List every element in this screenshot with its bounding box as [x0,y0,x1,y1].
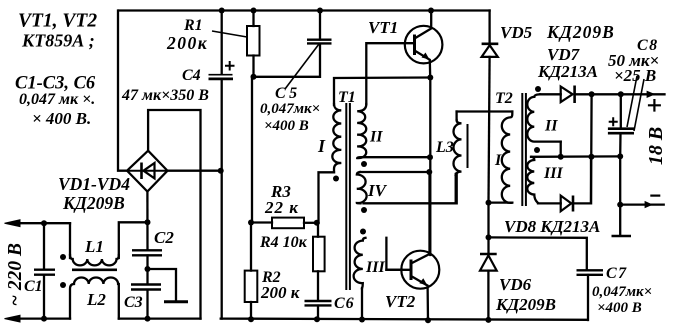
resistor R2 [245,223,258,320]
node C2 C3 midpoint [145,266,151,272]
inductor L1 [70,223,119,265]
wire T1 winding IV top [360,171,429,173]
wire L1 to bridge [119,222,148,258]
diode VD6 [480,203,497,321]
svg-text:C5: C5 [275,85,301,102]
T1 winding IV [357,172,367,203]
svg-text:C3: C3 [124,294,143,311]
transistor VT2 [386,172,439,321]
svg-text:VD6: VD6 [499,275,532,294]
T1 core line right [349,103,351,290]
node VD6 bottom [485,317,491,323]
T2 winding III [527,157,537,203]
wire VD6 node to C7 [489,237,587,269]
node winding II bottom [427,154,433,160]
capacitor C7 [577,270,604,320]
node R1 bottom [251,74,257,80]
node VT1 emitter [427,75,433,81]
resistor R4 [313,223,325,301]
input terminal top [5,220,71,227]
diode VD5 [482,11,499,203]
svg-text:VT2: VT2 [385,292,416,311]
svg-text:0,047мк×: 0,047мк× [592,284,652,300]
diode VD7 [540,86,665,104]
svg-text:C7: C7 [606,265,628,282]
node winding IV top [426,169,432,175]
svg-text:II: II [369,129,383,146]
svg-text:47 мк×350 В: 47 мк×350 В [121,87,209,104]
wire bridge top vertex to AC line [148,110,200,319]
wire VD7 cathode riser [590,94,593,203]
svg-text:VD1-VD4: VD1-VD4 [58,174,130,194]
svg-text:~ 220 В: ~ 220 В [5,243,26,306]
phasing dot T2 winding III [534,147,540,153]
T1 winding III [354,238,366,289]
T1 winding II [357,104,366,158]
wire T1 winding IV bottom to L3 [364,173,457,203]
wire T1 winding III top to VT2 base [386,238,402,270]
node R2 bottom [248,316,254,322]
inductor L3 [454,112,468,204]
svg-text:200 к: 200 к [260,283,300,302]
svg-text:VD8 КД213А: VD8 КД213А [504,217,600,236]
capacitor C8 electrolytic [608,76,644,156]
svg-text:VD5: VD5 [500,23,533,42]
capacitor C5 [285,11,332,90]
phasing dot T1 winding I [333,176,339,182]
svg-text:×400 В: ×400 В [597,300,642,316]
node center tap at riser [588,154,594,160]
svg-text:I: I [494,152,502,169]
wire bridge bottom riser [146,192,148,251]
node C1 bottom [41,316,47,322]
node DC minus at C4 line [218,168,224,174]
svg-text:КД213А: КД213А [537,62,598,81]
wire VT1 emitter to T1 winding I top [334,78,430,106]
svg-text:22 к: 22 к [264,198,299,217]
resistor R1 [212,11,260,77]
T2 winding I [502,112,513,203]
svg-text:R1: R1 [183,17,203,34]
svg-text:III: III [365,259,385,276]
wire VT1 emitter down to VT2 collector [429,78,431,256]
output terminal minus arrow [620,196,664,209]
T2 core line right [525,93,527,206]
svg-text:T1: T1 [338,89,356,106]
inductor L2 [70,277,119,318]
svg-text:VT1: VT1 [368,18,398,37]
node junction top rail at C5 [317,8,323,14]
phasing dot T1 winding IV [361,207,367,213]
capacitor C6 [305,301,332,320]
svg-text:C1: C1 [24,278,43,295]
phasing dot L1 [60,254,66,260]
node VD6 to C7 wire [486,234,492,240]
svg-text:I: I [317,136,326,156]
wire T1 winding II bottom to center node [362,156,430,158]
T2 winding II [527,94,560,141]
svg-text:L2: L2 [86,290,106,309]
svg-text:0,047мк×: 0,047мк× [260,101,320,117]
phasing dot T1 winding II [361,161,367,167]
wire bridge right vertex to DC minus [168,170,221,172]
input terminal bottom [5,315,71,322]
svg-text:18 В: 18 В [645,127,667,165]
node bridge bottom to L1 [145,219,151,225]
wire DC minus rail [221,319,588,320]
capacitor C2 [132,250,162,284]
T1 core line left [345,103,347,290]
svg-text:C2: C2 [154,228,174,247]
transformer T2 [489,93,561,206]
svg-text:R4 10к: R4 10к [259,234,308,251]
svg-text:200к: 200к [166,33,208,53]
svg-text:× 400 В.: × 400 В. [32,109,91,128]
capacitor C1 [34,223,55,318]
wire L3 top to T2 [457,110,513,112]
resistor R3 [251,218,317,229]
output terminal positive arrow [647,91,656,98]
node VT2 emitter [425,317,431,323]
wire T1 winding III bottom [361,288,363,320]
T1 winding I [332,104,341,172]
node C1 top [41,220,47,226]
svg-text:0,047 мк ×.: 0,047 мк ×. [19,91,95,108]
svg-text:VT1, VT2: VT1, VT2 [18,11,97,32]
diode VD8 [538,157,591,212]
svg-text:×25 В: ×25 В [614,66,656,85]
transformer T1 [332,103,366,290]
svg-text:L3: L3 [435,139,454,156]
wire bottom AC rail [119,317,201,319]
capacitor C3 [131,285,161,319]
wire output minus riser [619,156,621,235]
svg-text:III: III [543,165,563,182]
node T2 winding II bottom [558,154,564,160]
label output plus [648,99,661,112]
core of L1 L2 [72,268,117,271]
wire R1 down to R3 [251,77,253,223]
svg-text:T2: T2 [495,90,513,107]
wire center tap [531,155,620,158]
node R3 right [314,220,320,226]
node junction top rail at VT1 collector [428,8,434,14]
svg-text:IV: IV [367,181,388,200]
svg-text:II: II [544,118,558,135]
node C6 bottom [314,316,320,322]
svg-text:КД209В: КД209В [495,295,556,314]
phasing dot L2 [60,282,66,288]
svg-text:КД209В: КД209В [546,22,615,42]
T2 core line left [521,93,523,206]
capacitor C4 electrolytic [209,11,235,319]
node VD7 cathode [589,91,595,97]
phasing dot T1 winding III [360,229,366,235]
svg-text:×400 В: ×400 В [264,118,309,134]
node output minus [617,202,623,208]
node junction top rail at R1 [251,8,257,14]
svg-text:L1: L1 [84,237,104,256]
node C8 bottom [617,153,623,159]
node R3 left [248,220,254,226]
node junction top rail at C4 [219,8,225,14]
wire left positive riser [118,11,128,171]
ground stub output [612,235,632,237]
svg-text:КД209В: КД209В [62,193,125,213]
wire T2 winding II bottom riser [560,142,562,157]
node T2 winding I bottom VD5 VD6 [486,200,492,206]
transistor VT1 [366,11,442,105]
svg-text:C4: C4 [182,67,201,84]
node C8 top [618,91,624,97]
wire T1 winding I bottom to R3 R4 node [317,172,334,223]
svg-text:C6: C6 [334,295,355,312]
wire top positive rail [119,9,490,11]
wire R1 to C5 bottom [254,44,321,77]
bridge rectifier VD1-VD4 diamond [127,151,168,192]
svg-text:КТ859А ;: КТ859А ; [21,31,95,51]
node winding III bottom [359,317,365,323]
phasing dot T2 winding II [535,86,541,92]
ground [148,269,189,302]
node C3 bottom [145,316,151,322]
